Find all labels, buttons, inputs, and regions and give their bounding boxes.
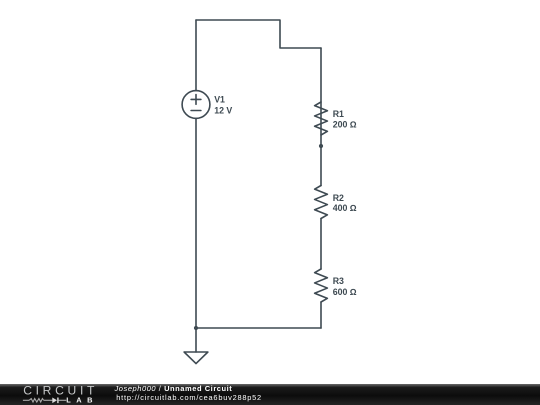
- wire R3 bottom to bottom rail: [320, 302, 322, 328]
- wire top: from above V1 right to step corner then down to R1 branch: [196, 20, 321, 48]
- resistor R2: [315, 186, 328, 219]
- node A junction dot: [319, 144, 323, 148]
- resistor R1: [315, 102, 328, 135]
- ground: [184, 352, 208, 364]
- svg-text:400 Ω: 400 Ω: [333, 203, 357, 213]
- node B junction dot (bottom left): [194, 326, 198, 330]
- wire right vertical passing through R1 down to node A: [320, 48, 322, 146]
- svg-text:R2: R2: [333, 193, 344, 203]
- wire R2 bottom to R3 top: [320, 219, 322, 270]
- svg-text:600 Ω: 600 Ω: [333, 287, 357, 297]
- resistor R3: [315, 269, 328, 302]
- wire node A to R2 top: [320, 146, 322, 186]
- svg-text:200 Ω: 200 Ω: [333, 120, 357, 130]
- wire left vertical from top corner down to V1 plus terminal: [195, 20, 197, 91]
- svg-text:V1: V1: [214, 94, 225, 104]
- footer bar: [0, 384, 540, 405]
- svg-text:LAB: LAB: [66, 395, 98, 404]
- circuitlab logo: [0, 383, 120, 405]
- voltage source V1: [182, 91, 210, 119]
- footer text: [115, 385, 262, 402]
- svg-text:12 V: 12 V: [214, 105, 232, 115]
- svg-text:R1: R1: [333, 109, 344, 119]
- wire bottom horizontal from node B to right branch: [196, 327, 321, 329]
- svg-text:R3: R3: [333, 276, 344, 286]
- wire left vertical from V1 minus terminal down to ground node: [195, 118, 197, 352]
